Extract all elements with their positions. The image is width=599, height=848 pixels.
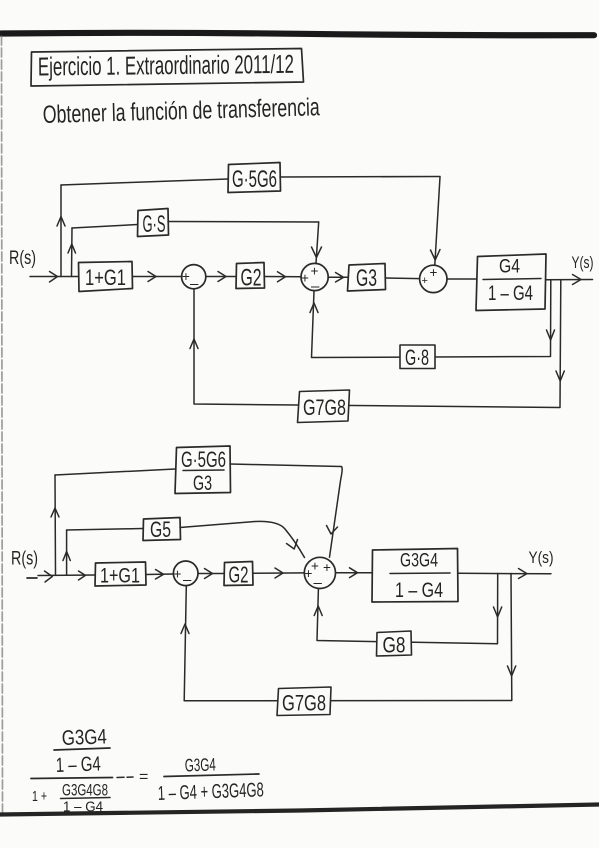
wire G5 feedforward line (top): [72, 222, 319, 229]
wire G5G6/G3 diagonal into S2 (bottom): [327, 466, 343, 557]
wire takeoff down to G8 line (top): [310, 280, 555, 358]
formula right denominator 1-G4+G3G4G8: [157, 779, 264, 805]
formula main bar: [31, 777, 133, 779]
formula equals sign: [139, 769, 148, 786]
svg-text:G4: G4: [499, 256, 520, 278]
title text: [38, 49, 294, 82]
block G4/(1-G4) (top): [476, 254, 546, 311]
wire tap up to G5 line (top): [68, 228, 76, 277]
scanner left edge line: [2, 36, 3, 813]
formula left denominator of numerator 1-G4: [55, 752, 101, 777]
block G5G6/G3 (bottom): [175, 446, 231, 495]
wire input to 1+G1 (bottom): [27, 571, 95, 582]
wire output Y(s) (bottom): [458, 569, 551, 579]
svg-text:–: –: [311, 278, 320, 295]
formula left denominator 1 +: [32, 788, 47, 805]
block G2 (top): [236, 263, 265, 292]
svg-text:G·8: G·8: [405, 345, 429, 370]
wire G5G6 feedforward line (top): [61, 177, 440, 186]
svg-text:G2: G2: [229, 562, 249, 588]
wire tap up to G5G6 line (top): [57, 185, 65, 277]
block G3G4/(1-G4) (bottom): [372, 549, 458, 603]
formula right bar: [164, 774, 259, 777]
block G8 (bottom): [377, 631, 412, 658]
wire G2 to S2 (top): [265, 272, 302, 282]
svg-text:–: –: [183, 572, 192, 589]
wire G2 to S2 (bottom): [253, 568, 304, 578]
wire output Y(s) (top): [546, 275, 593, 285]
wire S2 to G3G4 block (bottom): [336, 568, 372, 578]
svg-text:+: +: [301, 271, 309, 286]
summing junction S1 (top): [182, 265, 206, 293]
svg-text:+: +: [182, 269, 190, 284]
formula inner denominator 1-G4: [63, 799, 103, 816]
svg-text:+: +: [430, 265, 438, 280]
wire input to 1+G1 (top): [30, 272, 78, 283]
wire takeoff down to G7G8 line (top): [190, 280, 564, 408]
block G5 (bottom): [143, 517, 181, 542]
block G2 (bottom): [224, 562, 253, 588]
wire 1+G1 to S1 (bottom): [146, 570, 173, 580]
wire G5 curve into S2 (bottom): [180, 521, 305, 557]
svg-text:G5: G5: [150, 517, 171, 542]
svg-text:1+G1: 1+G1: [100, 565, 140, 588]
svg-text:G3: G3: [193, 472, 212, 495]
svg-text:=: =: [139, 769, 148, 786]
summing junction S2 (top): [301, 263, 328, 295]
wire S1 to G2 (bottom): [198, 569, 224, 579]
svg-text:G·5G6: G·5G6: [232, 166, 277, 193]
formula left numerator G3G4: [61, 725, 107, 750]
svg-text:G3G4: G3G4: [61, 725, 107, 750]
svg-text:G7G8: G7G8: [303, 395, 346, 420]
formula right numerator G3G4: [184, 754, 216, 775]
formula inner numerator G3G4G8: [62, 781, 108, 800]
block G7G8 (top): [298, 390, 350, 423]
svg-text:+: +: [323, 560, 331, 575]
label R(s) bottom: [11, 549, 38, 570]
svg-text:G·5G6: G·5G6: [181, 447, 226, 472]
summing junction S1 (bottom): [173, 561, 198, 589]
wire S2 to G3 (top): [328, 273, 348, 283]
block G3 (top): [348, 264, 386, 293]
block G7G8 (bottom): [277, 687, 331, 716]
wire takeoff down to G7G8 line (bottom): [181, 574, 516, 701]
svg-text:+: +: [422, 275, 428, 287]
svg-text:G2: G2: [241, 265, 262, 292]
wire G5G6 line down into S3 (top): [431, 177, 441, 265]
svg-text:1 – G4: 1 – G4: [63, 799, 103, 816]
label Y(s) top: [572, 254, 594, 272]
wire G5 feedforward line (bottom): [67, 529, 143, 531]
svg-text:1 – G4: 1 – G4: [488, 282, 533, 305]
wire S1 to G2 (top): [206, 272, 236, 282]
svg-text:G3: G3: [356, 265, 377, 292]
svg-text:1 +: 1 +: [32, 788, 47, 805]
subtitle text: [42, 93, 320, 129]
wire tap up to G5G6/G3 line (bottom): [51, 475, 59, 575]
block G5 (top): [138, 209, 169, 239]
svg-text:Y(s): Y(s): [529, 549, 554, 567]
svg-text:G3G4: G3G4: [400, 551, 438, 572]
svg-text:G·S: G·S: [143, 211, 166, 238]
svg-text:1 – G4 + G3G4G8: 1 – G4 + G3G4G8: [157, 779, 264, 805]
svg-text:G3G4: G3G4: [184, 754, 216, 775]
title box: [31, 49, 304, 87]
svg-text:+: +: [305, 566, 313, 581]
scanner bottom paper edge: [0, 805, 599, 815]
block 1+G1 (top): [79, 262, 133, 292]
wire G5G6/G3 feedforward line (bottom): [55, 464, 341, 475]
svg-text:G7G8: G7G8: [282, 691, 326, 716]
formula left numerator bar: [54, 748, 110, 750]
summing junction S3 (top): [420, 265, 447, 293]
svg-text:Ejercicio 1. Extraordinario 2: Ejercicio 1. Extraordinario 2011/12: [38, 49, 294, 82]
svg-text:G3G4G8: G3G4G8: [62, 781, 108, 800]
wire G3 to S3 (top): [386, 277, 420, 280]
svg-text:G8: G8: [383, 633, 406, 658]
label Y(s) bottom: [529, 549, 554, 567]
svg-text:R(s): R(s): [11, 549, 38, 570]
wire tap up to G5 line (bottom): [63, 530, 70, 575]
svg-text:+: +: [174, 567, 182, 582]
formula inner bar: [61, 798, 111, 799]
label R(s) top: [9, 248, 36, 269]
svg-text:Y(s): Y(s): [572, 254, 594, 272]
block G8 (top): [400, 345, 435, 370]
svg-text:+: +: [311, 264, 319, 279]
block G5G6 (top): [228, 163, 281, 194]
svg-text:1 – G4: 1 – G4: [395, 579, 443, 602]
wire G5 line down into S2 (top): [312, 222, 322, 263]
summing junction S2 (bottom): [304, 557, 335, 591]
svg-text:R(s): R(s): [9, 248, 36, 269]
scanner top black bar: [1, 33, 594, 35]
wire 1+G1 to S1 (top): [133, 272, 182, 282]
wire S3 to G4 block (top): [447, 278, 476, 280]
svg-text:1+G1: 1+G1: [85, 265, 126, 290]
svg-text:1 – G4: 1 – G4: [55, 752, 101, 777]
wire takeoff down to G8 line (bottom): [314, 574, 502, 644]
block 1+G1 (bottom): [95, 562, 146, 588]
